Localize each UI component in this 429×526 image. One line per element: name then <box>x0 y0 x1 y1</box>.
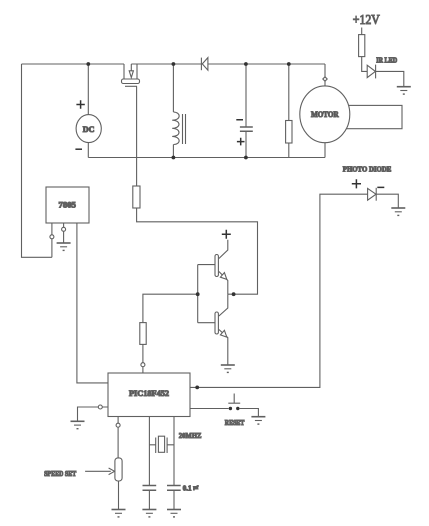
capacitor C1 polarized stubs <box>245 64 247 158</box>
svg-text:20MHZ: 20MHZ <box>179 431 202 440</box>
svg-text:SPEED SET: SPEED SET <box>44 469 76 478</box>
node junction dots <box>86 62 290 389</box>
capacitor C2 <box>143 486 157 510</box>
ground IR LED <box>397 87 411 94</box>
node motor top pin marker <box>323 77 327 81</box>
node driver supply plus <box>222 230 231 239</box>
transistor Q1 MOSFET <box>122 64 140 86</box>
inductor L1 core lines <box>183 114 186 144</box>
transistor Q2 top NPN <box>215 240 228 294</box>
potentiometer RV1 SPEED SET <box>44 458 122 481</box>
wire potentiometer to ground <box>118 481 120 509</box>
capacitor C3 0.1uf <box>167 485 198 509</box>
ground potentiometer <box>112 510 126 517</box>
wire photodiode anode to PIC right pin <box>190 194 368 387</box>
svg-text:MOTOR: MOTOR <box>311 110 339 119</box>
inductor L1 coil <box>172 112 179 145</box>
svg-text:IR LED: IR LED <box>376 56 397 64</box>
crystal X1 20MHZ <box>149 431 201 453</box>
IC U1 PIC18F452 <box>108 373 190 417</box>
diode D1 freewheel <box>201 58 208 71</box>
wire top rail right segment <box>131 63 325 65</box>
ground driver emitter <box>221 365 235 372</box>
motor M1 load box <box>345 105 402 128</box>
svg-text:7805: 7805 <box>59 201 76 210</box>
svg-text:PIC18F452: PIC18F452 <box>129 389 169 398</box>
transistor Q3 bottom NPN <box>215 294 228 364</box>
wire DC plus stub <box>87 64 89 115</box>
svg-text:RESET: RESET <box>225 419 245 427</box>
wire 7805 pin3 to PIC left <box>77 223 108 383</box>
ground 7805 pin2 <box>57 243 71 250</box>
wire 7805 pin1 drop <box>51 223 53 257</box>
wire left vertical to 7805 input <box>22 64 52 257</box>
wire base resistor to PIC top pin <box>142 344 144 372</box>
wire gate resistor to driver output node <box>137 208 258 294</box>
wire 7805 pin2 to ground <box>63 223 65 243</box>
svg-text:DC: DC <box>83 125 95 134</box>
wire Q2 base stub <box>198 264 215 266</box>
wire IR LED to ground <box>376 71 404 86</box>
wire MOSFET gate down through rail to gate resistor <box>136 86 138 186</box>
wire base drive from PIC <box>143 294 198 322</box>
ground RESET <box>251 417 265 424</box>
ground C2 <box>142 510 156 517</box>
photodiode D3 <box>368 188 377 201</box>
motor M1 body <box>300 86 350 143</box>
svg-text:+12V: +12V <box>353 13 380 28</box>
ground PIC left <box>71 421 85 428</box>
regulator U2 7805 <box>46 187 89 223</box>
resistor R3 IR LED supply <box>353 13 380 71</box>
wire PIC osc pin right <box>173 417 175 486</box>
wire motor top stub <box>324 64 326 86</box>
resistor R2 motor branch stubs <box>288 64 290 158</box>
capacitor C1 plates <box>240 127 253 131</box>
wire PIC left ground pin <box>78 407 109 421</box>
ground C3 <box>167 510 181 517</box>
inductor L1 stubs <box>172 64 174 158</box>
photodiode D3 polarity signs <box>352 179 385 188</box>
wire top rail left segment <box>22 63 125 65</box>
node open pin markers <box>50 227 145 427</box>
wire bottom rail <box>88 157 325 159</box>
ground photodiode <box>391 208 405 215</box>
resistor R1 gate resistor <box>133 186 140 208</box>
switch SW1 RESET <box>190 394 258 428</box>
svg-text:0.1 μf: 0.1 μf <box>183 485 199 493</box>
wire DC minus stub <box>87 143 89 158</box>
wire PIC bottom pin to potentiometer <box>117 417 119 458</box>
battery B1 DC source <box>75 100 101 149</box>
wire PIC osc pin left <box>148 417 150 486</box>
wire photodiode to ground <box>376 194 398 207</box>
capacitor C1 polarity signs <box>236 120 244 146</box>
resistor R2 motor branch <box>286 121 292 144</box>
wire motor bottom stub <box>324 143 326 158</box>
wire Q3 base stub <box>198 322 215 324</box>
resistor R4 base resistor <box>140 323 146 345</box>
diode D2 IR LED <box>367 56 397 78</box>
svg-text:PHOTO DIODE: PHOTO DIODE <box>343 164 392 173</box>
wire shared base vertical <box>197 265 199 323</box>
